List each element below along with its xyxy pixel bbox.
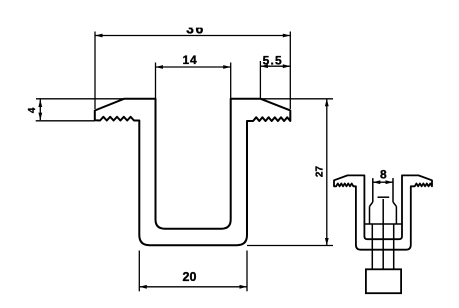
bolt shaft top edges: [364, 178, 402, 269]
dimension 5.5: [260, 61, 290, 99]
svg-text:27: 27: [314, 166, 325, 178]
dimension 8: [373, 181, 393, 183]
dimension 20 bottom: [139, 251, 247, 292]
dimension 4 left: [36, 99, 124, 121]
dimension 14: [156, 63, 231, 99]
nut block: [366, 269, 401, 293]
svg-text:14: 14: [183, 53, 198, 67]
svg-text:20: 20: [183, 270, 197, 284]
clamp cross-section profile outline: [95, 99, 290, 245]
svg-text:8: 8: [380, 167, 387, 181]
bolt head top flat: [378, 196, 390, 198]
svg-text:4: 4: [27, 107, 38, 113]
svg-text:5.5: 5.5: [263, 54, 283, 68]
clamp inner plate line: [364, 223, 402, 225]
bolt head chamfers: [370, 202, 373, 206]
dimension 27 right: [231, 99, 333, 246]
front view clamp body: [334, 175, 432, 249]
bolt shaft lower edges: [371, 224, 373, 269]
dimension 36 top: [95, 32, 290, 110]
bolt center line: [382, 199, 384, 269]
bolt head sides: [369, 206, 371, 224]
